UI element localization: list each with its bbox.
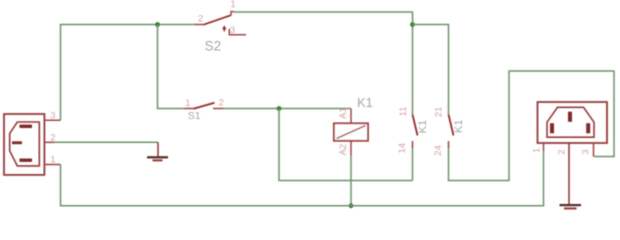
- J2 pin 3: [593, 143, 595, 157]
- connector J2 right contact bar: [586, 123, 590, 133]
- svg-text:24: 24: [433, 145, 444, 156]
- switch S2 blade: [203, 15, 231, 25]
- switch S2 pin 2: [194, 24, 203, 26]
- wire from junction down and right to contact 14: [279, 109, 413, 181]
- svg-text:S1: S1: [188, 110, 201, 122]
- svg-text:1: 1: [50, 155, 55, 166]
- wire relay coil A2 down to bottom bus: [350, 141, 352, 156]
- connector J2 left contact bar: [550, 123, 554, 133]
- switch S1 pin 1: [184, 108, 194, 110]
- svg-text:1: 1: [185, 98, 190, 109]
- node junction at S2 branch: [155, 22, 160, 27]
- svg-text:1: 1: [230, 0, 235, 10]
- wire branch to contact K1 21: [413, 25, 449, 115]
- svg-text:21: 21: [434, 107, 445, 118]
- connector J2 (IEC outlet) outer box: [538, 102, 608, 143]
- coil diagonal stripe: [337, 126, 366, 139]
- J2 pin 1: [543, 143, 545, 151]
- ground symbol left: [157, 142, 159, 156]
- svg-text:S2: S2: [205, 39, 222, 54]
- node junction on bottom bus: [349, 203, 354, 208]
- J1 pin 1: [44, 164, 60, 166]
- connector J1 top contact bar: [20, 125, 33, 128]
- wire net from J1 pin3 to S2 pin2 (top-left horizontal): [61, 25, 195, 121]
- connector J2 middle contact bar: [568, 112, 572, 122]
- svg-text:2: 2: [557, 149, 568, 154]
- J1 pin 3: [44, 119, 60, 121]
- wire from junction down to S1 pin1: [158, 25, 185, 109]
- svg-text:K1: K1: [357, 95, 373, 110]
- ground symbol right: [560, 204, 582, 206]
- connector J1 (IEC inlet) outer box: [4, 114, 44, 175]
- node junction top-right: [410, 22, 415, 27]
- switch S1 pin 2: [213, 108, 224, 110]
- svg-text:3: 3: [230, 25, 235, 36]
- svg-text:14: 14: [397, 143, 408, 154]
- connector J1 face outline: [10, 122, 40, 166]
- wire contact 24 to J2 pin3 (right loop): [449, 71, 615, 181]
- svg-text:2: 2: [198, 14, 203, 25]
- S2 pin 3 hook: [229, 29, 246, 35]
- wire A2 to bus: [350, 156, 352, 206]
- connector J2 face outline: [547, 107, 594, 137]
- svg-text:K1: K1: [417, 120, 429, 133]
- contact pin 14 stub: [412, 141, 414, 148]
- connector J1 bottom contact bar: [20, 159, 33, 162]
- relay contact K1 21/24 blade: [449, 115, 454, 136]
- coil pin A1 lead: [350, 109, 352, 124]
- J2 pin 2 and ground lead: [568, 143, 570, 205]
- node junction at S1 net: [277, 106, 282, 111]
- J1 pin 2: [44, 141, 54, 143]
- svg-text:2: 2: [50, 133, 55, 144]
- svg-text:3: 3: [581, 149, 592, 154]
- wire J1 pin2 to ground: [53, 141, 158, 143]
- svg-text:11: 11: [398, 107, 409, 117]
- relay contact K1 11/14 blade: [413, 115, 418, 136]
- wire contact 14 bottom stub: [412, 147, 414, 181]
- wire S1 pin2 to relay coil A1: [224, 108, 352, 110]
- S2 actuator arrow: [223, 29, 225, 32]
- svg-text:A1: A1: [338, 107, 349, 119]
- contact pin 24 stub: [448, 141, 450, 148]
- svg-text:K1: K1: [453, 119, 465, 132]
- wire from S2 pin1 to contacts top (y=12): [233, 12, 413, 115]
- connector J1 middle contact bar: [12, 141, 22, 144]
- switch S1 blade: [194, 103, 215, 109]
- svg-text:3: 3: [50, 110, 55, 121]
- wire bottom bus from J1 pin1 to J2 pin1: [61, 150, 544, 206]
- svg-text:1: 1: [532, 148, 543, 153]
- S2 pin 1 hook: [231, 12, 234, 16]
- svg-text:2: 2: [219, 98, 224, 109]
- relay coil K1: [334, 123, 368, 141]
- svg-text:A2: A2: [338, 144, 349, 156]
